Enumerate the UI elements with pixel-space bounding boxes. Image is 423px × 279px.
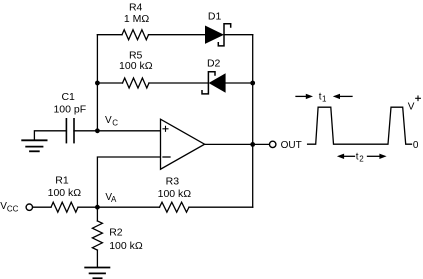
svg-text:C1: C1 — [61, 91, 75, 103]
svg-text:0: 0 — [413, 140, 419, 151]
svg-text:V: V — [105, 115, 112, 126]
svg-text:100 kΩ: 100 kΩ — [109, 240, 143, 252]
svg-text:100 kΩ: 100 kΩ — [48, 187, 82, 199]
svg-text:OUT: OUT — [281, 140, 302, 151]
svg-text:R2: R2 — [109, 227, 123, 239]
svg-text:R4: R4 — [129, 2, 143, 14]
svg-text:V: V — [408, 102, 415, 113]
svg-text:100 kΩ: 100 kΩ — [158, 188, 192, 200]
svg-text:100 kΩ: 100 kΩ — [119, 60, 153, 72]
svg-text:100 pF: 100 pF — [53, 103, 86, 115]
svg-text:1 MΩ: 1 MΩ — [124, 13, 150, 25]
svg-text:1: 1 — [322, 95, 327, 104]
svg-text:D1: D1 — [208, 11, 222, 23]
svg-text:A: A — [111, 195, 117, 204]
svg-text:R3: R3 — [166, 176, 180, 188]
svg-text:CC: CC — [7, 204, 19, 213]
svg-text:2: 2 — [359, 155, 364, 164]
svg-text:D2: D2 — [207, 57, 221, 69]
svg-text:R1: R1 — [55, 174, 69, 186]
svg-text:C: C — [112, 119, 118, 128]
